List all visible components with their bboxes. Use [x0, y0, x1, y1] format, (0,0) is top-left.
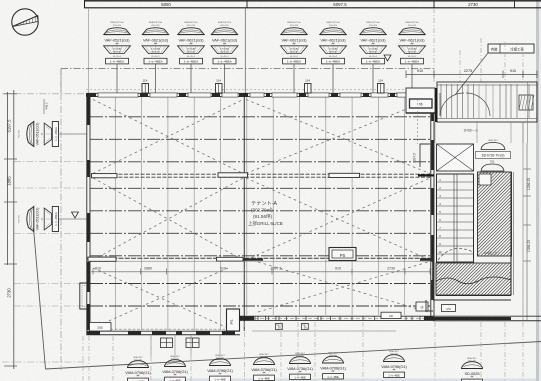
- left dim line inner: [13, 90, 15, 369]
- wall bottom-left piers: [87, 332, 100, 335]
- storefront label box: [381, 312, 401, 318]
- right dim vtick a: [523, 168, 531, 170]
- interior step right: [420, 144, 430, 167]
- wall bottom-right outer: [240, 319, 434, 321]
- wall bottom-right centerline: [242, 317, 433, 319]
- left dim tick 2: [4, 158, 17, 160]
- stair break arc: [438, 248, 473, 260]
- duct stub group 2: [186, 338, 199, 348]
- wall left jog: [80, 283, 87, 309]
- hatched block lower: [398, 263, 541, 295]
- wall bottom-left dash above: [92, 328, 225, 330]
- top-right label box: [488, 44, 534, 53]
- x-brace lower-left: [93, 268, 228, 328]
- top fan F8 VAF-0621(G3): [399, 21, 426, 93]
- left margin horiz c: [14, 187, 86, 189]
- right dim vtick b: [523, 195, 531, 197]
- left fan F9 VAF-0511: [18, 122, 87, 147]
- left dim line outer: [7, 92, 9, 265]
- right band small hatch: [519, 95, 534, 110]
- top duct box 4: [378, 84, 385, 94]
- bottom fan B2 VAM-0706(G1): [162, 355, 188, 381]
- interior wall y261 pill mid: [217, 257, 244, 261]
- top fan F3 VAF-0621(G3): [178, 21, 205, 93]
- right dim line y74: [406, 74, 537, 76]
- x-brace upper-right: [246, 100, 430, 174]
- stair treads: [437, 181, 474, 183]
- bottom fan B3 VAM-0796(G1): [207, 354, 233, 381]
- top fan F2 VAF-0621(G3): [142, 21, 169, 93]
- bottom fan B6 VAM-0706(G1): [320, 352, 346, 380]
- vert line x245 upper: [244, 8, 246, 93]
- partition y175 dark seg: [418, 174, 434, 176]
- right margin hatch wall piece: [510, 172, 512, 295]
- triangle marker top: [384, 55, 391, 61]
- bottom fan connectors: [150, 335, 152, 356]
- north arrow symbol: [12, 9, 38, 35]
- br bottom wall outer: [433, 320, 541, 322]
- br bottom wall inner: [433, 315, 541, 317]
- wall top outer: [87, 92, 435, 94]
- wall left piers: [87, 97, 90, 125]
- top dim tick b: [433, 1, 435, 9]
- bottom fan B5 VAM-0736(G1): [287, 352, 313, 380]
- bottom fan B7 VAM-0796(G1): [381, 350, 407, 378]
- wall right piers: [431, 99, 434, 121]
- property line long: [46, 342, 541, 370]
- top dim tick c: [514, 1, 516, 9]
- interior wall y261 a: [87, 257, 434, 259]
- left dim tick 3: [4, 201, 17, 203]
- partition y175 pill 1: [92, 174, 118, 178]
- right band wall x437: [435, 88, 437, 122]
- right dim ticks: [405, 71, 407, 79]
- scan edge shadow right: [536, 0, 539, 381]
- top fan F1 VAF-0521(G3): [104, 21, 131, 93]
- left dim tick 1: [4, 93, 17, 95]
- duct stub group 1: [161, 338, 173, 348]
- top duct box 2: [216, 84, 223, 94]
- canopy line below wall: [252, 330, 396, 332]
- top duct box 1: [142, 84, 149, 94]
- left margin horiz a: [2, 93, 86, 95]
- partition wall y175: [91, 173, 430, 175]
- tick boxes below wall: [276, 323, 283, 329]
- right dome 2: [481, 164, 504, 171]
- partition y175 pill 3: [329, 173, 360, 177]
- hatched shaft upper: [391, 172, 541, 256]
- triangle marker left: [72, 212, 79, 218]
- x-brace upper-left: [93, 100, 243, 174]
- wall top inner: [87, 96, 435, 98]
- wall top joints: [86, 93, 96, 97]
- left dim tick 4: [4, 263, 17, 265]
- right band treads: [440, 84, 442, 118]
- elevator box: [437, 144, 474, 171]
- top dim line upper: [84, 0, 541, 2]
- wall bottom-right inner: [240, 315, 434, 317]
- grid horizontals: [90, 116, 431, 118]
- vert chains below plan: [82, 336, 84, 380]
- right band inner bottom: [437, 118, 537, 120]
- x-brace middle-right: [246, 178, 430, 260]
- wall bottom-left inner: [87, 330, 241, 332]
- right dim vline: [526, 143, 528, 320]
- top fan F5 VAF-0621(G3): [281, 21, 308, 93]
- vert chain x61: [60, 69, 62, 371]
- bottom fan B4 VAM-0706(G1): [251, 353, 277, 381]
- left dim tick 5: [4, 365, 17, 367]
- interior dim ticks: [92, 269, 94, 275]
- dash line above top wall: [86, 89, 434, 91]
- top dim line lower: [84, 7, 541, 9]
- br wall lower a: [436, 295, 511, 297]
- right band inner top: [437, 84, 537, 86]
- left margin horiz e: [14, 283, 86, 285]
- top-right leader line: [455, 53, 488, 95]
- left margin horiz f: [14, 305, 86, 307]
- label SD-0726: [476, 152, 511, 159]
- left margin horiz g: [2, 361, 86, 363]
- horiz chain y68: [61, 68, 434, 70]
- PS shaft box bottom: [227, 309, 240, 331]
- stair outline: [437, 174, 474, 262]
- right band verticals: [499, 84, 501, 118]
- top fan F7 VAF-0621(G3): [360, 21, 387, 93]
- right dim vtick d: [523, 260, 531, 262]
- right band outline: [437, 82, 537, 122]
- interior wall y261 dark seg1: [243, 258, 263, 260]
- interior wall y261 b: [87, 260, 434, 262]
- right band door arc 2: [466, 93, 490, 116]
- wall right inner: [430, 97, 432, 317]
- interior dim line: [91, 271, 430, 273]
- wall right outer: [433, 93, 435, 321]
- elevator X: [437, 144, 474, 171]
- top dim tick a: [246, 1, 248, 9]
- bottom-left small box: [90, 323, 112, 332]
- br wall vert: [432, 255, 434, 300]
- wall bottom-left outer: [87, 334, 241, 336]
- wall left outer: [86, 93, 88, 335]
- right band door arc 1: [440, 93, 464, 116]
- right band roomlet: [406, 88, 435, 113]
- step line top-left: [60, 69, 62, 94]
- vert chains right top: [433, 8, 435, 82]
- bottom fan B1 VAM-0796(G1): [125, 356, 151, 381]
- property line steep: [34, 228, 46, 369]
- PS box middle: [329, 248, 356, 261]
- scan edge tint bottom: [130, 379, 536, 381]
- wall bottom-right dark chunk: [240, 316, 254, 320]
- stair rail: [453, 174, 455, 262]
- bottom fan SD-0525: [462, 357, 483, 381]
- top fan F6 VAF-0621(G3): [320, 21, 347, 93]
- top duct box 3: [305, 84, 312, 94]
- br bottom wall dark: [433, 317, 511, 320]
- right dome 1: [481, 143, 505, 150]
- partition y175 pill 2: [218, 173, 248, 177]
- right mid verticals: [434, 122, 436, 143]
- column line x244: [243, 93, 245, 331]
- br step: [426, 300, 433, 311]
- top dim tick left: [84, 1, 86, 9]
- inner dim vline: [417, 99, 419, 144]
- left fan dim 448.5: [43, 99, 45, 114]
- grid verticals: [114, 97, 116, 330]
- left margin horiz b: [14, 161, 86, 163]
- right dim vtick c: [523, 224, 531, 226]
- br box 470: [442, 305, 456, 312]
- br wall lower b: [433, 299, 511, 301]
- vert line x88 upper: [88, 8, 90, 93]
- interior wall y261 pill left: [88, 257, 116, 261]
- left margin horiz d: [14, 233, 86, 235]
- left fan F10 VAF-0511: [18, 207, 87, 232]
- top fan F4 VAF-0621(G3): [211, 21, 238, 93]
- wall top window pills: [98, 93, 138, 97]
- wall bottom-right mullions: [243, 316, 245, 320]
- wall left inner: [89, 97, 91, 331]
- x-brace middle-left: [93, 178, 243, 260]
- interior wall y261 dark seg2: [420, 258, 434, 260]
- br right verticals: [522, 122, 524, 320]
- x-brace lower-right: [258, 262, 428, 312]
- wall bottom-right dark chunk 2: [424, 316, 433, 320]
- br box yu: [416, 302, 428, 311]
